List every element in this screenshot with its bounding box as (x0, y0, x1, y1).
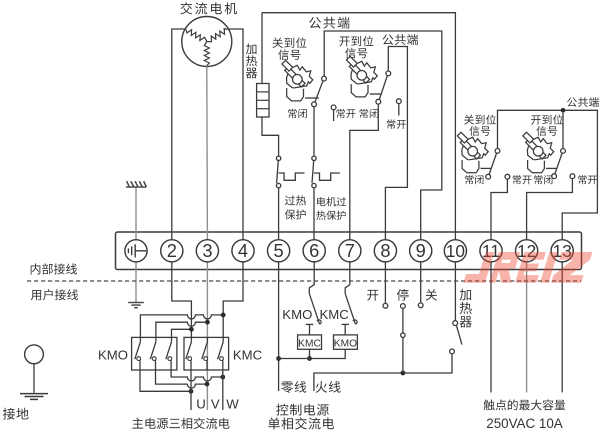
wire: common line to heater (261, 13, 263, 84)
terminal 11 (480, 240, 502, 262)
STOP branch from live line (402, 337, 404, 373)
motor M: AC motor (182, 17, 232, 67)
wire: line B (phase B to KMO pole 2) (156, 322, 208, 337)
svg-text:KMC: KMC (298, 338, 321, 349)
wire: motor phase C to terminal 4 (228, 29, 243, 240)
junction: line E / V (205, 382, 210, 387)
junction: line B / phase B (205, 320, 210, 325)
contactor KMO main contacts box (132, 337, 177, 370)
SW4 blade (common to NC) (555, 153, 562, 174)
label: 常开 (SW3 NO) (513, 175, 532, 184)
terminal 13 (551, 240, 573, 262)
limit switch SW2 cam (open position) (346, 56, 377, 97)
svg-text:3: 3 (202, 240, 212, 261)
svg-text:4: 4 (238, 240, 248, 261)
wire: U output (190, 370, 192, 410)
label: 常闭 (SW1 NC) (288, 109, 307, 118)
label: 接地 (earth) (3, 408, 29, 420)
junction: line A / phase C (221, 313, 226, 318)
limit switch SW4 cam (open position, user) (523, 132, 554, 173)
wire: SW2 NC to terminal 7 (350, 104, 379, 240)
wire: chassis ground to terminal 1 (135, 188, 137, 240)
SW1 actuator link (305, 97, 319, 99)
heater element R1 (257, 84, 269, 118)
junction: neutral / terminal 5 (276, 356, 281, 361)
svg-text:U: U (196, 397, 206, 412)
svg-text:W: W (226, 397, 239, 412)
label: 交流电机 (AC motor) (180, 2, 237, 14)
SW1 NC contact (312, 102, 317, 107)
SW3 NO contact (505, 174, 510, 179)
svg-text:6: 6 (309, 240, 319, 261)
svg-text:KMC: KMC (233, 348, 263, 363)
wire: line C (phase A to KMO pole 3) (172, 329, 192, 337)
label: 火线 (live) (316, 381, 341, 393)
wire: terminal 12 (user) (526, 262, 528, 393)
label: 信号 (SW4 line2) (536, 126, 557, 136)
motor winding V (207, 29, 228, 42)
KMC auxiliary contact (on terminal 7 wire) (345, 262, 350, 294)
terminal 12 (516, 240, 538, 262)
wire: KMC coil to neutral (309, 349, 311, 358)
wire: SW2 common to terminal 8 (385, 47, 407, 241)
junction: line F / U (189, 389, 194, 394)
svg-text:V: V (211, 397, 220, 412)
wire: motor phase B to terminal 3 (206, 67, 209, 241)
KMO pole 2 contact (155, 337, 157, 341)
svg-text:KMO: KMO (282, 307, 312, 322)
terminal 6 (303, 240, 325, 262)
SW2 NO contact (unconnected stub) (396, 99, 401, 104)
svg-text:10: 10 (446, 241, 465, 261)
wire: F2 to terminal 6 (313, 188, 315, 240)
label: 零线 (neutral) (281, 381, 306, 393)
SW3 NC contact (unconnected) (486, 174, 491, 179)
label: 加热器 (heater, user) (460, 289, 472, 328)
label: 单相交流电 (single-phase AC) (268, 417, 334, 429)
internal/user boundary (dashed) (27, 280, 581, 282)
junction: line D / W (220, 375, 225, 380)
label: 关 (close) (426, 289, 437, 301)
wire: terminal 8 to OPEN button terminal (384, 262, 386, 303)
contactor KMC main contacts box (184, 337, 229, 370)
terminal 9 (410, 240, 432, 262)
wire: common line SW3/SW4 to terminal 13 (498, 110, 598, 240)
label: 控制电源 (control supply) (276, 404, 329, 416)
svg-text:250VAC 10A: 250VAC 10A (486, 416, 562, 431)
SW4 actuator link (546, 167, 556, 169)
label: 信号 (SW2 line2) (345, 48, 367, 59)
SW4 NC contact (unconnected) (552, 174, 557, 179)
SW2 NC contact (376, 99, 381, 104)
SW3 actuator link (481, 167, 492, 169)
terminal 10 (444, 240, 466, 262)
heater switch (user, on terminal 10) (454, 262, 456, 321)
svg-text:KMO: KMO (98, 348, 128, 363)
wire: SW3 NO to terminal 11 (491, 179, 507, 240)
label: 内部接线 (internal wiring) (31, 263, 77, 274)
wire: SW1 NC to thermal contact F2 (313, 107, 315, 157)
label: 常开 (SW4 NO) (578, 175, 597, 184)
label: 常闭 (SW3 NC) (465, 175, 483, 184)
wire: motor phase A to terminal 2 (172, 29, 186, 240)
label: 开到位 (SW4 line1) (531, 115, 563, 125)
wire: terminal 13 (user) (561, 262, 563, 393)
SW2 common contact (386, 71, 391, 76)
limit switch SW3 cam (close position, user) (457, 132, 488, 173)
chassis ground (internal) (126, 181, 146, 187)
OPEN button terminal (383, 303, 388, 308)
terminal 5 (268, 240, 290, 262)
wire: terminal 1 to protective earth (135, 262, 137, 302)
label: 信号 (SW1 line2) (278, 49, 300, 60)
thermal overload contact F1 (heater) (276, 156, 280, 160)
wire: terminal 2 to KMC pole 1 riser (172, 262, 192, 337)
label: 常闭 (SW4 NC) (534, 175, 552, 184)
label: 常开 (SW2 NO) (387, 119, 406, 128)
terminal 2 (161, 240, 183, 262)
label: 常闭 (SW2 NC) (360, 109, 379, 118)
wire: F1 to terminal 5 (278, 188, 280, 240)
label: 保护 (F1 line2) (285, 209, 306, 219)
junction: SW4 common on common line (561, 108, 566, 113)
junction: line C / phase A (189, 327, 194, 332)
label: 用户接线 (user wiring) (31, 289, 78, 300)
label: 信号 (SW3 line2) (469, 126, 490, 136)
KMO auxiliary contact (on terminal 6 wire) (309, 262, 314, 294)
wire: terminal 5 to neutral (零线) (278, 262, 280, 391)
label: 主电源三相交流电 (main 3-phase supply) (132, 418, 229, 429)
terminal 3 (196, 240, 218, 262)
wire: SW4 common riser (562, 113, 564, 149)
KMO pole 3 contact (171, 337, 173, 341)
KMO coil (334, 335, 358, 349)
svg-text:KMO: KMO (334, 338, 357, 349)
svg-text:KMC: KMC (320, 307, 350, 322)
motor winding W (204, 42, 209, 66)
label: 电机过 (F2 line1) (317, 197, 346, 206)
KMC pole 3 contact (222, 337, 224, 341)
terminal 8 (374, 240, 396, 262)
junction: live / stop branch (401, 371, 406, 376)
SW2 blade (common to NC) (379, 76, 387, 100)
SW1 NO contact (unconnected stub) (331, 105, 336, 110)
terminal 7 (339, 240, 361, 262)
svg-text:8: 8 (380, 240, 390, 261)
svg-text:2: 2 (167, 240, 177, 261)
thermal overload contact F2 (motor) (312, 156, 316, 160)
label: 公共端 (common #3) (567, 97, 599, 107)
wire: SW1 common to terminal 9 (324, 31, 442, 240)
label: 开 (open) (367, 290, 378, 301)
SW4 common contact (561, 149, 566, 154)
label: 开到位 (SW2 line1) (339, 36, 373, 47)
label: 关到位 (SW3 line1) (464, 115, 496, 125)
KMC pole 2 contact (206, 337, 208, 341)
SW2 actuator link (370, 93, 382, 95)
terminal 4 (232, 240, 254, 262)
wire: terminal 4 to KMC pole 3 riser (223, 262, 243, 337)
SW3 common contact (495, 149, 500, 154)
SW1 blade (common to NC) (315, 81, 323, 102)
wire: common top line (heater / terminal 10) (262, 13, 455, 240)
KMO pole 1 contact (139, 337, 141, 341)
wire: W output (222, 370, 224, 410)
JREIZ watermark (463, 252, 592, 283)
KMC pole 1 contact (190, 337, 192, 341)
label: 过热 (F1 line1) (285, 195, 306, 205)
limit switch SW1 cam (close position) (282, 60, 313, 101)
wire: terminal 3 phase B (straight down to V) (206, 262, 208, 410)
label: 公共端 (common #1) (309, 17, 349, 29)
wire: line D (KMO pole3 out to W) (171, 370, 223, 381)
wire: live line (火线) (314, 354, 452, 391)
KMC coil (298, 335, 322, 349)
label: 加热器 (heater, internal) (246, 43, 257, 78)
svg-text:7: 7 (345, 240, 355, 261)
protective earth (user) (128, 303, 144, 308)
label: 热保护 (F2 line2) (316, 211, 345, 220)
wire: line E (KMO pole2 out to V) (156, 370, 208, 388)
earth electrode symbol (接地) (25, 345, 44, 364)
SW3 blade (common to NC) (489, 153, 497, 174)
wire: terminal 11 (user) (490, 262, 492, 393)
junction: neutral / KMC coil (307, 356, 312, 361)
wire: terminal 9 to CLOSE button terminal (420, 262, 422, 303)
label: 公共端 (common #2) (383, 34, 418, 45)
terminal strip (116, 232, 582, 270)
SW4 NO contact (570, 174, 575, 179)
wire: heater to thermal contact F1 (262, 117, 279, 156)
CLOSE button terminal (418, 303, 423, 308)
wire: KMO coil to neutral line (279, 349, 346, 358)
svg-text:9: 9 (416, 240, 426, 261)
wire: line F (KMO pole1 out to U) (140, 370, 191, 391)
label: 关到位 (SW1 line1) (272, 37, 306, 48)
svg-text:5: 5 (274, 240, 284, 261)
wire: SW4 NO to terminal 12 (527, 179, 573, 240)
label: 常开 (SW1 NO) (336, 109, 355, 118)
label: 触点的最大容量 (max contact rating) (484, 399, 566, 410)
terminal 1 (125, 240, 147, 262)
label: 停 (stop) (397, 289, 409, 301)
SW1 common contact (322, 76, 327, 81)
wire: line A (phase C to KMO pole 1) (140, 315, 223, 338)
motor winding U (186, 30, 207, 42)
